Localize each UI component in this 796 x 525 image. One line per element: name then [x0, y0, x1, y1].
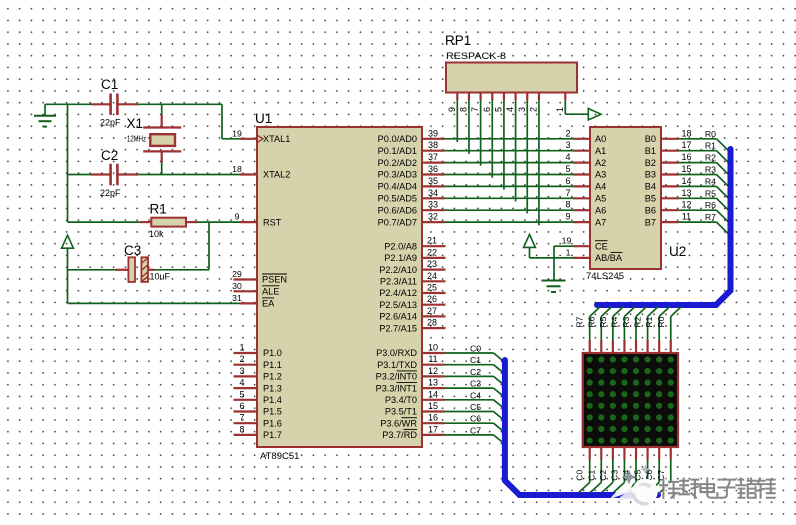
- pin 19 CE: [562, 236, 608, 252]
- svg-text:B4: B4: [645, 182, 656, 192]
- wire row 7 of matrix: [590, 307, 601, 354]
- svg-text:P3.4/T0: P3.4/T0: [385, 395, 417, 405]
- wire: [515, 100, 517, 201]
- svg-text:26: 26: [427, 294, 437, 304]
- pin 21 P2.0/A8: [384, 236, 445, 252]
- svg-text:R4: R4: [705, 176, 716, 186]
- svg-text:P3.0/RXD: P3.0/RXD: [376, 348, 417, 358]
- wire C6: [445, 423, 505, 432]
- pin 31 EA: [232, 293, 275, 309]
- wire: [67, 104, 69, 222]
- svg-text:14: 14: [428, 389, 438, 399]
- svg-text:R1: R1: [705, 141, 716, 151]
- svg-text:C3: C3: [470, 379, 481, 389]
- pin 4 P1.3: [234, 378, 282, 394]
- pin 17 B1: [645, 140, 692, 156]
- svg-text:X1: X1: [127, 116, 144, 131]
- wire R7: [679, 222, 729, 234]
- svg-text:2: 2: [239, 354, 244, 364]
- svg-text:C3: C3: [609, 470, 619, 481]
- svg-text:P2.5/A13: P2.5/A13: [379, 300, 417, 310]
- wire row 4 of matrix: [624, 307, 635, 354]
- pin 33 P0.6/AD6: [378, 200, 445, 216]
- svg-text:P0.5/AD5: P0.5/AD5: [378, 194, 417, 204]
- pin 14 B4: [645, 176, 692, 192]
- svg-text:11: 11: [428, 354, 437, 364]
- svg-text:18: 18: [681, 128, 691, 138]
- wire row 5 of matrix: [613, 307, 624, 354]
- svg-text:22pF: 22pF: [100, 188, 121, 198]
- pin 3 A1: [565, 140, 606, 156]
- pin 7 of RP1: [470, 93, 481, 113]
- svg-text:7: 7: [565, 188, 570, 198]
- net label C5: [633, 470, 643, 481]
- pin 30 ALE: [232, 281, 279, 297]
- svg-text:37: 37: [428, 152, 438, 162]
- net label C6: [644, 470, 654, 481]
- svg-text:32: 32: [428, 212, 438, 222]
- pin 9 A7: [565, 212, 606, 228]
- wire: [198, 221, 241, 223]
- pin 14 P3.4/T0: [385, 389, 445, 405]
- pin 17 P3.7/RD: [382, 424, 444, 440]
- wire: [138, 104, 240, 139]
- wire: [155, 269, 210, 271]
- svg-text:B0: B0: [645, 134, 656, 144]
- svg-text:1: 1: [555, 107, 565, 112]
- svg-text:P1.4: P1.4: [263, 395, 282, 405]
- wire C7: [445, 435, 505, 444]
- svg-text:35: 35: [428, 176, 438, 186]
- svg-text:P1.0: P1.0: [263, 348, 282, 358]
- svg-text:P2.1/A9: P2.1/A9: [384, 253, 417, 263]
- net label R7: [575, 316, 585, 327]
- wire AD3: [445, 174, 574, 176]
- svg-text:9: 9: [447, 107, 457, 112]
- capacitor C3: [68, 243, 171, 282]
- svg-text:P1.2: P1.2: [263, 372, 282, 382]
- pin 4 A2: [565, 152, 606, 168]
- pin 13 B5: [645, 188, 692, 204]
- svg-text:EA: EA: [262, 299, 275, 309]
- svg-text:A6: A6: [595, 205, 606, 215]
- svg-text:27: 27: [427, 306, 437, 316]
- svg-text:P3.7/RD: P3.7/RD: [382, 430, 417, 440]
- pin 5 P1.4: [234, 389, 282, 405]
- svg-text:33: 33: [428, 200, 438, 210]
- capacitor C2: [68, 148, 139, 198]
- svg-text:C1: C1: [101, 77, 118, 92]
- wire: [208, 222, 210, 270]
- pin 6 of RP1: [482, 93, 493, 113]
- svg-text:21: 21: [427, 236, 437, 246]
- svg-text:A2: A2: [595, 158, 606, 168]
- pin 12 B6: [645, 200, 692, 216]
- wire column 7 of matrix: [660, 446, 671, 493]
- svg-text:P2.3/A11: P2.3/A11: [380, 277, 417, 287]
- svg-text:RST: RST: [263, 217, 282, 227]
- wire AD1: [445, 150, 574, 152]
- svg-text:P0.1/AD1: P0.1/AD1: [378, 146, 417, 156]
- wire C5: [445, 412, 505, 421]
- svg-text:30: 30: [232, 281, 242, 291]
- svg-text:R5: R5: [705, 188, 716, 198]
- svg-text:P2.4/A12: P2.4/A12: [379, 288, 417, 298]
- resistor R1: [68, 202, 198, 240]
- pin 5 of RP1: [493, 93, 504, 113]
- svg-text:13: 13: [428, 378, 438, 388]
- svg-text:C5: C5: [470, 402, 481, 412]
- wire: [554, 246, 573, 280]
- svg-text:38: 38: [428, 140, 438, 150]
- pin 35 P0.4/AD4: [378, 176, 445, 192]
- svg-text:A0: A0: [595, 134, 606, 144]
- svg-text:R5: R5: [598, 316, 608, 327]
- watermark text: [660, 479, 775, 499]
- svg-text:P2.7/A15: P2.7/A15: [379, 323, 417, 333]
- svg-text:10k: 10k: [149, 229, 164, 239]
- svg-text:B7: B7: [645, 217, 656, 227]
- pin 15 P3.5/T1: [385, 401, 445, 417]
- svg-text:9: 9: [235, 212, 240, 222]
- pin 27 P2.6/A14: [379, 306, 445, 322]
- svg-text:U2: U2: [669, 244, 686, 259]
- svg-text:8: 8: [239, 424, 244, 434]
- pin 10 P3.0/RXD: [376, 343, 444, 359]
- svg-text:P0.4/AD4: P0.4/AD4: [378, 182, 417, 192]
- wire C1: [445, 365, 505, 374]
- wire C4: [445, 400, 505, 409]
- svg-text:6: 6: [239, 401, 244, 411]
- pin 3 P1.2: [234, 366, 282, 382]
- wire AD0: [445, 138, 574, 140]
- pin 38 P0.1/AD1: [378, 140, 445, 156]
- svg-text:P0.7/AD7: P0.7/AD7: [378, 217, 417, 227]
- pin 3 of RP1: [517, 93, 528, 113]
- wire C2: [445, 376, 505, 385]
- svg-text:16: 16: [681, 152, 691, 162]
- pin 1 P1.0: [234, 343, 282, 359]
- svg-text:2: 2: [565, 128, 570, 138]
- wire row 0 of matrix: [671, 307, 682, 354]
- bus: [597, 149, 731, 305]
- svg-text:A1: A1: [595, 146, 606, 156]
- svg-text:C1: C1: [586, 470, 596, 481]
- power terminal: [588, 109, 601, 120]
- svg-text:ALE: ALE: [262, 287, 279, 297]
- svg-text:3: 3: [239, 366, 244, 376]
- wire row 3 of matrix: [636, 307, 647, 354]
- svg-text:A5: A5: [595, 194, 606, 204]
- svg-text:B1: B1: [645, 146, 656, 156]
- svg-text:31: 31: [232, 293, 242, 303]
- wire: [67, 270, 69, 304]
- svg-text:3: 3: [517, 107, 527, 112]
- wire R3: [679, 175, 729, 187]
- svg-text:P3.5/T1: P3.5/T1: [385, 407, 417, 417]
- pin 34 P0.5/AD5: [378, 188, 445, 204]
- pin 8 P1.7: [234, 424, 282, 440]
- pin 7 A5: [565, 188, 606, 204]
- pin 8 of RP1: [458, 93, 469, 113]
- wire AD2: [445, 162, 574, 164]
- capacitor C1: [91, 77, 138, 128]
- svg-text:7: 7: [470, 107, 480, 112]
- svg-text:CE: CE: [595, 241, 608, 251]
- pin 11 B7: [645, 212, 691, 228]
- pin 13 P3.3/INT1: [376, 378, 445, 394]
- buffer U2 74LS245: [586, 127, 686, 282]
- svg-text:1: 1: [239, 343, 244, 353]
- svg-text:R2: R2: [633, 316, 643, 327]
- svg-text:29: 29: [232, 269, 242, 279]
- svg-text:19: 19: [562, 236, 572, 246]
- wire: [468, 100, 470, 154]
- svg-text:24: 24: [427, 271, 437, 281]
- svg-text:15: 15: [428, 401, 438, 411]
- svg-text:2: 2: [528, 107, 538, 112]
- svg-text:23: 23: [427, 259, 437, 269]
- pin 6 A4: [565, 176, 606, 192]
- svg-text:R1: R1: [644, 316, 654, 327]
- pin 4 of RP1: [505, 93, 516, 113]
- wire: [45, 103, 91, 105]
- net label R5: [598, 316, 608, 327]
- pin 25 P2.4/A12: [379, 283, 445, 299]
- svg-text:C7: C7: [470, 425, 481, 435]
- pin 7 P1.6: [234, 413, 282, 429]
- svg-text:28: 28: [427, 318, 437, 328]
- svg-text:R3: R3: [705, 165, 716, 175]
- svg-text:C0: C0: [575, 470, 585, 481]
- net label R3: [621, 316, 631, 327]
- svg-text:16: 16: [428, 413, 438, 423]
- svg-text:R2: R2: [705, 153, 716, 163]
- svg-text:39: 39: [428, 128, 438, 138]
- net label C0: [575, 470, 585, 481]
- svg-text:XTAL1: XTAL1: [263, 134, 290, 144]
- svg-text:74LS245: 74LS245: [586, 271, 624, 282]
- svg-text:1: 1: [566, 247, 571, 257]
- wire: [530, 257, 574, 259]
- pin 9 of RP1: [447, 93, 458, 113]
- pin 2 P1.1: [234, 354, 282, 370]
- pin 19 XTAL1: [232, 128, 290, 144]
- svg-text:A4: A4: [595, 182, 606, 192]
- wire AD5: [445, 197, 574, 199]
- svg-text:10: 10: [428, 343, 438, 353]
- svg-text:17: 17: [428, 424, 438, 434]
- resistor pack RP1 RESPACK-8: [445, 33, 577, 93]
- svg-text:7: 7: [239, 413, 244, 423]
- wire C3: [445, 388, 505, 397]
- svg-text:6: 6: [482, 107, 492, 112]
- wire C0: [445, 353, 505, 362]
- wire R0: [679, 139, 729, 151]
- net label R0: [656, 316, 666, 327]
- svg-text:14: 14: [681, 176, 691, 186]
- svg-text:P1.3: P1.3: [263, 383, 282, 393]
- svg-text:13: 13: [681, 188, 691, 198]
- svg-text:C0: C0: [470, 344, 481, 354]
- svg-text:PSEN: PSEN: [262, 275, 287, 285]
- svg-text:P3.2/INT0: P3.2/INT0: [376, 372, 417, 382]
- svg-text:22pF: 22pF: [100, 118, 121, 128]
- wire column 1 of matrix: [590, 446, 601, 493]
- svg-text:C2: C2: [470, 367, 481, 377]
- pin 29 PSEN: [232, 269, 287, 285]
- pin 12 P3.2/INT0: [376, 366, 445, 382]
- svg-text:11: 11: [682, 212, 691, 222]
- wire R1: [679, 151, 729, 163]
- clock input symbol: [258, 135, 264, 142]
- pin 16 P3.6/WR: [380, 413, 444, 429]
- wire AD7: [445, 221, 574, 223]
- pin 32 P0.7/AD7: [378, 212, 445, 228]
- wire AD6: [445, 209, 574, 211]
- svg-text:6: 6: [565, 176, 570, 186]
- wire column 4 of matrix: [625, 446, 636, 493]
- svg-text:RESPACK-8: RESPACK-8: [446, 51, 506, 62]
- svg-text:R7: R7: [575, 316, 585, 327]
- svg-text:B6: B6: [645, 205, 656, 215]
- wire R2: [679, 163, 729, 175]
- svg-text:R6: R6: [705, 200, 716, 210]
- svg-text:22: 22: [427, 247, 437, 257]
- wire: [565, 100, 588, 114]
- svg-text:U1: U1: [255, 111, 272, 126]
- pin 5 A3: [565, 164, 606, 180]
- svg-text:P0.3/AD3: P0.3/AD3: [378, 170, 417, 180]
- pin 2 A0: [565, 128, 606, 144]
- wire column 6 of matrix: [648, 446, 659, 493]
- svg-text:C4: C4: [470, 390, 481, 400]
- pin 2 of RP1: [528, 93, 539, 113]
- svg-text:A7: A7: [595, 217, 606, 227]
- net label C2: [598, 470, 608, 481]
- net label C4: [621, 470, 631, 481]
- svg-text:18: 18: [232, 164, 242, 174]
- wire: [491, 100, 493, 177]
- svg-text:C3: C3: [124, 243, 141, 258]
- pin 11 P3.1/TXD: [377, 354, 444, 370]
- crystal X1: [127, 104, 182, 174]
- svg-text:C2: C2: [101, 148, 118, 163]
- svg-text:17: 17: [681, 140, 691, 150]
- net label R4: [609, 316, 619, 327]
- wire column 2 of matrix: [602, 446, 613, 493]
- svg-text:5: 5: [493, 107, 503, 112]
- svg-text:AB/BA: AB/BA: [595, 253, 623, 263]
- svg-text:P0.2/AD2: P0.2/AD2: [378, 158, 417, 168]
- pin 26 P2.5/A13: [379, 294, 445, 310]
- svg-text:3: 3: [565, 140, 570, 150]
- bus: [505, 360, 658, 495]
- svg-text:P3.3/INT1: P3.3/INT1: [376, 383, 417, 393]
- svg-text:36: 36: [428, 164, 438, 174]
- svg-text:5: 5: [239, 389, 244, 399]
- svg-text:9: 9: [565, 212, 570, 222]
- pin 24 P2.3/A11: [380, 271, 446, 287]
- svg-text:P3.6/WR: P3.6/WR: [380, 418, 417, 428]
- svg-text:C2: C2: [598, 470, 608, 481]
- svg-text:P1.1: P1.1: [263, 360, 282, 370]
- pin 22 P2.1/A9: [384, 247, 445, 263]
- svg-text:P1.6: P1.6: [263, 418, 282, 428]
- wire: [503, 100, 505, 189]
- svg-text:R6: R6: [586, 316, 596, 327]
- svg-text:P2.2/A10: P2.2/A10: [379, 265, 417, 275]
- wire column 0 of matrix: [579, 446, 590, 493]
- svg-text:25: 25: [427, 283, 437, 293]
- pin 8 A6: [565, 200, 606, 216]
- mcu U1 AT89C51: [255, 111, 422, 462]
- pin 9 RST: [235, 212, 282, 228]
- net label R2: [633, 316, 643, 327]
- pin 16 B2: [645, 152, 692, 168]
- svg-text:R1: R1: [150, 202, 167, 217]
- svg-text:4: 4: [565, 152, 570, 162]
- svg-text:C5: C5: [633, 470, 643, 481]
- pin 18 B0: [645, 128, 692, 144]
- wire R4: [679, 186, 729, 198]
- svg-text:R7: R7: [705, 212, 716, 222]
- net label R6: [586, 316, 596, 327]
- wire row 2 of matrix: [648, 307, 659, 354]
- wire: [526, 100, 528, 213]
- svg-text:5: 5: [565, 164, 570, 174]
- power terminal: [62, 235, 74, 270]
- svg-text:34: 34: [428, 188, 438, 198]
- svg-text:12: 12: [681, 200, 691, 210]
- wire: [538, 100, 540, 225]
- net label C3: [609, 470, 619, 481]
- svg-text:P0.6/AD6: P0.6/AD6: [378, 205, 417, 215]
- svg-text:C6: C6: [470, 414, 481, 424]
- svg-text:12MHz: 12MHz: [127, 135, 146, 144]
- pin 36 P0.3/AD3: [378, 164, 445, 180]
- svg-text:B3: B3: [645, 170, 656, 180]
- watermark logo: [610, 465, 658, 505]
- svg-text:R3: R3: [621, 316, 631, 327]
- svg-text:4: 4: [239, 378, 244, 388]
- wire R6: [679, 210, 729, 222]
- svg-text:R0: R0: [705, 129, 716, 139]
- wire: [456, 100, 458, 142]
- ground: [34, 104, 56, 126]
- svg-text:R4: R4: [609, 316, 619, 327]
- svg-text:4: 4: [505, 107, 515, 112]
- svg-text:B5: B5: [645, 194, 656, 204]
- svg-text:8: 8: [565, 200, 570, 210]
- pin 23 P2.2/A10: [379, 259, 445, 275]
- svg-text:10uF: 10uF: [150, 272, 171, 282]
- pin 15 B3: [645, 164, 692, 180]
- svg-text:C1: C1: [470, 355, 481, 365]
- net label R1: [644, 316, 654, 327]
- wire AD4: [445, 185, 574, 187]
- net label C1: [586, 470, 596, 481]
- svg-text:RP1: RP1: [445, 33, 471, 48]
- net label C7: [656, 470, 666, 481]
- ground: [542, 281, 566, 293]
- svg-text:P1.5: P1.5: [263, 407, 282, 417]
- pin 6 P1.5: [234, 401, 282, 417]
- wire: [480, 100, 482, 166]
- pin 18 XTAL2: [232, 164, 290, 180]
- wire: [138, 174, 240, 176]
- svg-text:P0.0/AD0: P0.0/AD0: [378, 134, 417, 144]
